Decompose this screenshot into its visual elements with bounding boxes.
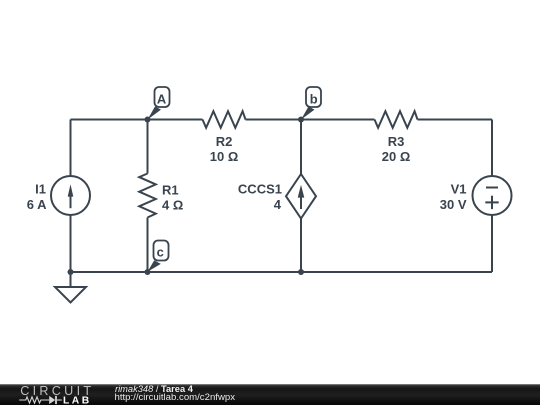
svg-text:4: 4	[274, 197, 282, 212]
wire: V1 bottom lead	[491, 215, 493, 273]
junction: CCCS1 bottom dot	[298, 269, 304, 275]
svg-text:LAB: LAB	[63, 395, 92, 405]
svg-text:c: c	[157, 244, 164, 259]
wire: R1 bottom lead to node c	[147, 218, 149, 273]
current source I1	[27, 176, 90, 215]
resistor R3	[375, 111, 418, 164]
controlled current source CCCS1	[238, 174, 316, 219]
svg-text:10 Ω: 10 Ω	[210, 149, 239, 164]
wire bottom rail: ground junction to node c	[71, 271, 148, 273]
svg-text:R1: R1	[162, 182, 179, 197]
junction: node A dot	[145, 117, 151, 123]
wire: I1 top lead	[70, 120, 72, 177]
CircuitLab logo schematic line + LAB	[10, 394, 110, 406]
svg-text:b: b	[310, 92, 318, 107]
wire: CCCS1 top lead from node b	[300, 120, 302, 175]
voltage source V1	[440, 176, 512, 215]
wire: V1 top lead	[491, 120, 493, 177]
wire bottom rail: node c to CCCS1 bottom junction	[148, 271, 302, 273]
wire top rail: R3 right lead to V1 branch corner	[418, 119, 493, 121]
wire top rail: node b to R3 left lead	[301, 119, 375, 121]
svg-text:I1: I1	[35, 182, 46, 197]
node A flag	[148, 87, 170, 120]
ground	[55, 272, 86, 303]
svg-text:V1: V1	[451, 182, 467, 197]
wire top rail: R2 right lead to node b	[246, 119, 302, 121]
resistor R1	[139, 174, 183, 218]
footer bar	[0, 384, 540, 405]
resistor R2	[203, 111, 246, 164]
wire: I1 bottom lead	[70, 215, 72, 273]
junction: ground dot	[68, 269, 74, 275]
footer url line	[115, 393, 236, 403]
node c flag	[148, 241, 169, 272]
wire bottom rail: CCCS1 bottom junction to V1 branch	[301, 271, 492, 273]
junction: node c dot	[145, 269, 151, 275]
svg-text:R3: R3	[388, 134, 405, 149]
wire: R1 top lead from node A	[147, 120, 149, 174]
node b flag	[301, 87, 321, 120]
svg-text:30 V: 30 V	[440, 197, 467, 212]
footer credit line	[115, 385, 193, 394]
wire top rail: node A to R2 left lead	[148, 119, 203, 121]
svg-text:R2: R2	[216, 134, 233, 149]
wire: CCCS1 bottom lead	[300, 219, 302, 273]
svg-text:20 Ω: 20 Ω	[382, 149, 411, 164]
junction: node b dot	[298, 117, 304, 123]
CircuitLab logo wordmark	[20, 387, 94, 397]
wire top rail: I1 top to node A	[71, 119, 148, 121]
svg-text:4 Ω: 4 Ω	[162, 198, 183, 213]
svg-text:A: A	[157, 91, 166, 106]
svg-text:CCCS1: CCCS1	[238, 182, 282, 197]
svg-text:6 A: 6 A	[27, 197, 47, 212]
